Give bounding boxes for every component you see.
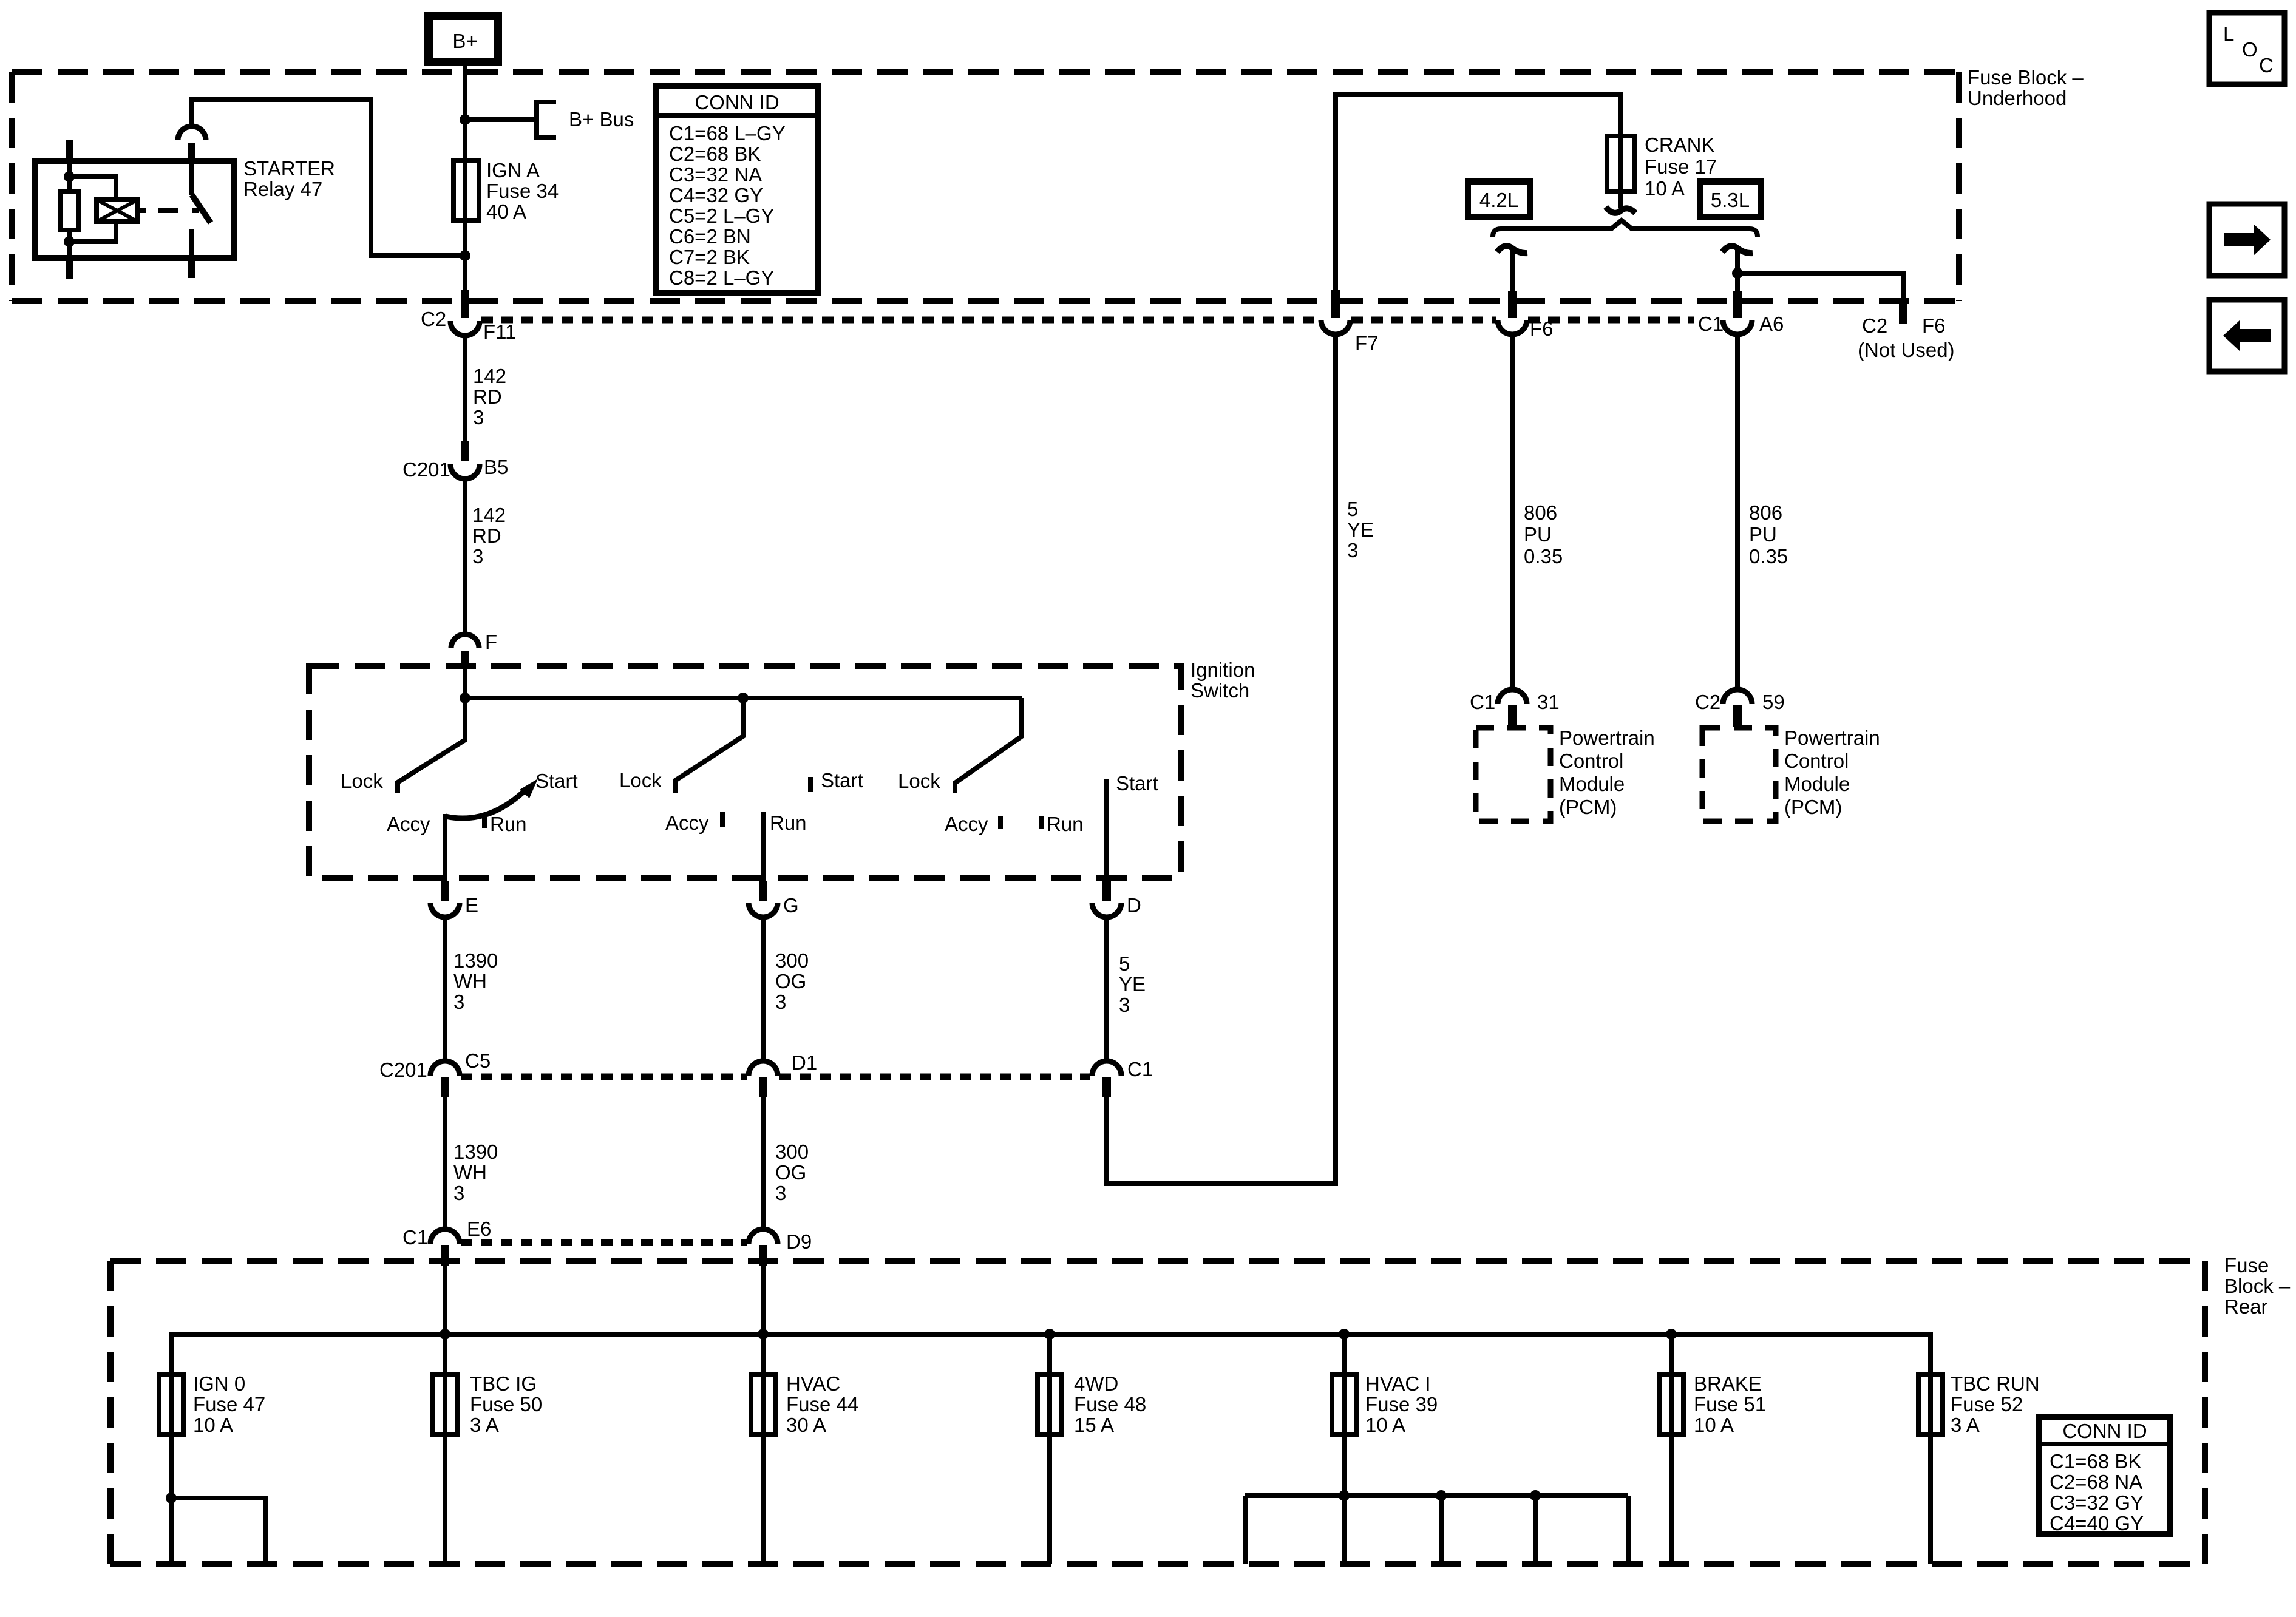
svg-text:Module: Module: [1559, 773, 1625, 795]
connector D1: pin: [759, 1077, 767, 1097]
node bus TBC IG: [440, 1329, 450, 1340]
wire C1 down and over to F7 riser: [1107, 336, 1336, 1184]
svg-text:806: 806: [1524, 501, 1557, 524]
wire IGN 0 output: [169, 1375, 174, 1564]
wire resistor bottom: [67, 230, 72, 258]
svg-text:Relay 47: Relay 47: [243, 178, 322, 200]
svg-text:B+ Bus: B+ Bus: [569, 108, 634, 131]
svg-text:C5: C5: [465, 1049, 491, 1072]
svg-text:Start: Start: [1116, 772, 1158, 795]
label 142 RD 3: [473, 365, 506, 429]
svg-text:C2: C2: [421, 308, 446, 330]
svg-text:Fuse 51: Fuse 51: [1694, 1393, 1766, 1415]
svg-text:TBC IG: TBC IG: [470, 1372, 537, 1395]
label 300 OG 3 lower: [775, 1141, 809, 1204]
svg-text:Accy: Accy: [945, 813, 988, 835]
wire C5 to C1 E6: [443, 1097, 447, 1230]
starter relay box: [35, 161, 234, 258]
svg-text:3: 3: [775, 1182, 786, 1204]
contact tick Run 1: [482, 813, 487, 828]
contact tick Start 2: [808, 777, 813, 792]
svg-text:Rear: Rear: [2224, 1295, 2268, 1318]
svg-text:OG: OG: [775, 1161, 806, 1184]
label Fuse Block Underhood: [1968, 66, 2084, 109]
connector F6: arc: [1498, 320, 1527, 334]
connector C2 F11: arc: [450, 321, 480, 336]
svg-text:L: L: [2223, 22, 2234, 45]
connector E: pin: [441, 881, 449, 901]
svg-text:C4=40 GY: C4=40 GY: [2050, 1512, 2144, 1534]
label Powertrain Control Module PCM left: [1559, 727, 1655, 818]
label 806 PU 0.35 right: [1749, 501, 1788, 568]
connector C201 C5: pin: [441, 1077, 449, 1097]
svg-text:3: 3: [1347, 539, 1358, 561]
svg-text:Fuse 52: Fuse 52: [1951, 1393, 2023, 1415]
contact tick Accy 2: [720, 812, 725, 827]
label 5 YE 3 riser: [1347, 498, 1374, 561]
svg-text:Start: Start: [535, 770, 578, 792]
relay switch pin bottom: [188, 258, 195, 278]
connector C2 59: arc: [1723, 690, 1752, 704]
connector arc at relay switch: [178, 126, 206, 140]
svg-text:Fuse 48: Fuse 48: [1074, 1393, 1146, 1415]
svg-text:Fuse 44: Fuse 44: [786, 1393, 858, 1415]
wire D to C1: [1104, 917, 1109, 1062]
CONN ID table rear: [2039, 1417, 2170, 1534]
wire to not used pin: [1737, 273, 1903, 301]
svg-text:10 A: 10 A: [1694, 1414, 1734, 1436]
svg-text:HVAC: HVAC: [786, 1372, 840, 1395]
arrow box right: [2209, 204, 2284, 276]
svg-text:3: 3: [473, 406, 484, 429]
coil actuator stub: [138, 208, 146, 213]
connector D1: arc: [749, 1061, 778, 1076]
svg-text:Fuse 50: Fuse 50: [470, 1393, 542, 1415]
fuse BRAKE Fuse 51: [1659, 1375, 1683, 1434]
relay switch contact: [189, 229, 194, 258]
svg-text:C2=68 NA: C2=68 NA: [2050, 1471, 2142, 1493]
svg-text:Ignition: Ignition: [1190, 659, 1255, 681]
svg-text:IGN A: IGN A: [486, 159, 540, 181]
connector G: arc: [749, 903, 778, 917]
fuse block rear dashed border: [110, 1261, 2205, 1564]
svg-text:F6: F6: [1922, 314, 1946, 337]
connector D: pin: [1102, 881, 1111, 901]
svg-text:(Not Used): (Not Used): [1858, 339, 1955, 361]
connector F: arc: [451, 634, 479, 648]
svg-text:YE: YE: [1119, 973, 1146, 995]
svg-text:1390: 1390: [453, 949, 498, 972]
svg-text:CONN ID: CONN ID: [695, 91, 779, 114]
wire G to D1: [761, 917, 766, 1062]
svg-text:1390: 1390: [453, 1141, 498, 1163]
connector E: arc: [430, 903, 460, 917]
wire A6 to PCM: [1735, 334, 1740, 690]
node coil bottom: [64, 236, 75, 247]
svg-text:Underhood: Underhood: [1968, 87, 2067, 109]
connector C1 E6: pin: [441, 1245, 449, 1266]
svg-text:B+: B+: [452, 30, 477, 52]
svg-text:C3=32 NA: C3=32 NA: [669, 163, 762, 186]
svg-text:Lock: Lock: [341, 770, 383, 792]
fuse 4WD Fuse 48: [1038, 1375, 1062, 1434]
svg-text:Accy: Accy: [387, 813, 430, 835]
connector C201 B5: pin: [461, 441, 469, 461]
svg-text:5: 5: [1119, 952, 1130, 975]
connector F: pin: [461, 651, 469, 669]
fuse HVAC I Fuse 39: [1332, 1375, 1356, 1434]
node A6 split: [1732, 268, 1743, 279]
svg-text:Lock: Lock: [619, 769, 662, 792]
svg-text:Switch: Switch: [1190, 679, 1249, 702]
svg-text:Run: Run: [490, 813, 527, 835]
pin C2 F6 not used: [1899, 300, 1907, 324]
svg-text:C6=2 BN: C6=2 BN: [669, 225, 751, 248]
svg-text:Powertrain: Powertrain: [1784, 727, 1880, 749]
svg-text:0.35: 0.35: [1749, 545, 1788, 568]
ladder stub 1: [1243, 1496, 1248, 1564]
label STARTER Relay 47: [243, 157, 335, 200]
svg-text:4.2L: 4.2L: [1479, 189, 1518, 211]
wafer 1 movable contact: [398, 698, 465, 793]
connector C1 A6: arc: [1723, 320, 1752, 334]
wire break 4.2L branch: [1497, 246, 1527, 253]
svg-text:300: 300: [775, 1141, 809, 1163]
fuse TBC IG Fuse 50: [433, 1375, 457, 1434]
node ladder 3: [1530, 1490, 1541, 1501]
svg-text:WH: WH: [453, 970, 487, 992]
label Ignition Switch: [1190, 659, 1255, 702]
node B+ bus junction: [460, 114, 470, 125]
svg-text:C1: C1: [1127, 1058, 1153, 1080]
svg-text:D: D: [1127, 894, 1141, 917]
svg-text:3: 3: [775, 991, 786, 1013]
label Fuse Block Rear: [2224, 1254, 2291, 1318]
relay coil feed wire: [67, 161, 72, 191]
wire 4WD output: [1047, 1334, 1052, 1564]
connector D: arc: [1092, 903, 1121, 917]
svg-text:IGN 0: IGN 0: [193, 1372, 245, 1395]
connector dashed row C2/F11 to A6: [481, 317, 1694, 324]
ignition switch dashed box: [309, 666, 1181, 878]
svg-text:WH: WH: [453, 1161, 487, 1184]
svg-text:Start: Start: [821, 769, 863, 792]
svg-text:3 A: 3 A: [470, 1414, 499, 1436]
svg-text:C1: C1: [1470, 691, 1495, 713]
wire relay switch to junction: [192, 100, 465, 256]
relay left pin bottom: [66, 258, 73, 279]
svg-text:Run: Run: [1047, 813, 1084, 835]
svg-text:0.35: 0.35: [1524, 545, 1563, 568]
svg-text:15 A: 15 A: [1074, 1414, 1114, 1436]
connector C2 59: pin: [1733, 705, 1742, 727]
connector D9: arc: [749, 1229, 778, 1244]
label 1390 WH 3 lower: [453, 1141, 498, 1204]
resistor in relay: [60, 191, 78, 230]
wire switch feed bus: [465, 696, 1022, 700]
svg-text:3: 3: [1119, 994, 1130, 1016]
node bus HVAC I: [1339, 1329, 1350, 1340]
wire BRAKE output: [1669, 1334, 1674, 1564]
rear fuse bus: [171, 1334, 1931, 1375]
svg-text:Block –: Block –: [2224, 1275, 2291, 1297]
engine split brace: [1493, 220, 1758, 237]
wire break below CRANK fuse: [1606, 207, 1635, 213]
svg-text:D9: D9: [786, 1230, 812, 1253]
svg-text:Fuse Block –: Fuse Block –: [1968, 66, 2084, 89]
wire break 5.3L branch: [1722, 246, 1753, 253]
wire 142 RD down to C201: [463, 336, 467, 441]
connector F7: arc: [1321, 320, 1350, 334]
svg-text:C1: C1: [1698, 313, 1724, 335]
wire G output from Run contact: [761, 812, 766, 887]
wire 142 RD to ignition switch: [463, 479, 467, 635]
CONN ID table underhood: [656, 86, 818, 293]
pin into relay: [188, 143, 195, 161]
wire to B+ Bus: [465, 117, 537, 122]
svg-text:5.3L: 5.3L: [1711, 189, 1750, 211]
label box 4.2L: [1468, 181, 1530, 217]
connector C1 31: pin: [1508, 705, 1517, 727]
svg-text:Control: Control: [1559, 750, 1623, 772]
wire D9 to rear bus: [761, 1266, 766, 1334]
fuse HVAC Fuse 44: [751, 1375, 775, 1434]
svg-text:PU: PU: [1524, 523, 1552, 546]
relay coil box: [97, 200, 138, 222]
svg-text:Run: Run: [770, 812, 807, 834]
svg-text:4WD: 4WD: [1074, 1372, 1118, 1395]
wafer 3 movable contact: [955, 698, 1022, 793]
actuator dashed linkage: [158, 208, 178, 213]
wire 5.3L branch down: [1735, 248, 1740, 293]
svg-text:B5: B5: [484, 456, 508, 478]
label 300 OG 3: [775, 949, 809, 1013]
connector C1 E6: arc: [430, 1229, 460, 1244]
fuse IGN A Fuse 34: [453, 161, 479, 220]
connector G: pin: [759, 881, 767, 901]
svg-text:Fuse 17: Fuse 17: [1645, 155, 1717, 178]
fuse TBC RUN Fuse 52: [1918, 1375, 1943, 1434]
svg-text:C1=68 L–GY: C1=68 L–GY: [669, 122, 786, 144]
connector row dashed C5 to C1: [461, 1074, 1090, 1080]
PCM box left: [1476, 728, 1550, 821]
fuse IGN 0 Fuse 47: [159, 1375, 183, 1434]
svg-text:10 A: 10 A: [193, 1414, 233, 1436]
label 1390 WH 3: [453, 949, 498, 1013]
node bus HVAC: [758, 1329, 769, 1340]
wire E to C201 C5: [443, 917, 447, 1062]
wire D output from Start contact: [1104, 779, 1109, 887]
svg-text:3: 3: [453, 991, 464, 1013]
arrow box left: [2209, 300, 2284, 371]
label box 5.3L: [1700, 181, 1761, 217]
svg-text:40 A: 40 A: [486, 200, 526, 223]
svg-text:Powertrain: Powertrain: [1559, 727, 1655, 749]
fuse CRANK Fuse 17: [1607, 136, 1634, 192]
svg-text:BRAKE: BRAKE: [1694, 1372, 1762, 1395]
wire top feed to CRANK fuse: [1336, 95, 1620, 290]
svg-text:Control: Control: [1784, 750, 1849, 772]
wire D1 to D9: [761, 1097, 766, 1230]
svg-text:3: 3: [453, 1182, 464, 1204]
svg-text:RD: RD: [472, 524, 501, 547]
svg-text:Accy: Accy: [665, 812, 709, 834]
relay left pin top: [66, 140, 73, 161]
svg-text:C3=32 GY: C3=32 GY: [2050, 1491, 2144, 1514]
svg-text:30 A: 30 A: [786, 1414, 826, 1436]
svg-text:59: 59: [1762, 691, 1785, 713]
svg-text:5: 5: [1347, 498, 1358, 520]
svg-text:Fuse 39: Fuse 39: [1365, 1393, 1438, 1415]
label 5 YE 3: [1119, 952, 1146, 1016]
svg-text:A6: A6: [1759, 313, 1784, 335]
label 142 RD 3 second: [472, 504, 506, 568]
node ladder 2: [1436, 1490, 1447, 1501]
connector C1 A6: pin: [1733, 291, 1742, 318]
ladder stub 3: [1533, 1496, 1538, 1564]
B+ power terminal: [429, 16, 498, 62]
node bus at wafer 2: [738, 693, 749, 703]
svg-text:C1=68 BK: C1=68 BK: [2050, 1450, 2141, 1473]
svg-text:G: G: [783, 894, 799, 917]
svg-text:(PCM): (PCM): [1784, 796, 1842, 818]
relay switch lever: [192, 195, 211, 223]
svg-text:D1: D1: [792, 1051, 817, 1074]
svg-text:Fuse: Fuse: [2224, 1254, 2269, 1276]
PCM box right: [1702, 728, 1776, 821]
connector D9: pin: [759, 1245, 767, 1266]
connector F6: pin: [1508, 291, 1517, 318]
ladder stub 2: [1439, 1496, 1444, 1564]
svg-text:PU: PU: [1749, 523, 1777, 546]
connector C1 31: arc: [1498, 690, 1527, 704]
wire HVAC output: [761, 1334, 766, 1564]
connector C1 on D wire: pin: [1102, 1077, 1111, 1097]
node IGN 0 split: [166, 1493, 177, 1503]
contact tick Accy 3: [998, 816, 1003, 829]
svg-text:Fuse 47: Fuse 47: [193, 1393, 265, 1415]
svg-text:YE: YE: [1347, 518, 1374, 541]
label Powertrain Control Module PCM right: [1784, 727, 1880, 818]
svg-text:142: 142: [472, 504, 506, 526]
svg-text:OG: OG: [775, 970, 806, 992]
wire F into switch: [463, 668, 467, 700]
svg-text:STARTER: STARTER: [243, 157, 335, 180]
connector C201 B5: arc: [450, 464, 480, 479]
svg-text:3: 3: [472, 545, 483, 568]
fuse block underhood dashed border: [12, 72, 1959, 301]
svg-text:C201: C201: [379, 1059, 427, 1081]
label 806 PU 0.35 left: [1524, 501, 1563, 568]
svg-text:10 A: 10 A: [1365, 1414, 1405, 1436]
svg-text:CRANK: CRANK: [1645, 134, 1715, 156]
wire HVAC I output: [1342, 1334, 1347, 1564]
connector C2 F11: pin: [461, 290, 469, 318]
connector C1 on D wire: arc: [1092, 1061, 1121, 1076]
svg-text:CONN ID: CONN ID: [2062, 1420, 2147, 1442]
wire IGN 0 branch right: [171, 1498, 265, 1564]
svg-text:C7=2 BK: C7=2 BK: [669, 246, 750, 268]
svg-text:C2=68 BK: C2=68 BK: [669, 143, 761, 165]
svg-text:C201: C201: [402, 458, 450, 481]
svg-text:300: 300: [775, 949, 809, 972]
svg-text:F: F: [485, 631, 497, 653]
connector C201 C5: arc: [430, 1061, 460, 1076]
wire 4.2L branch to F6: [1510, 248, 1515, 293]
node bus at wafer 1: [460, 693, 470, 703]
relay switch common wire: [189, 161, 194, 195]
svg-text:C8=2 L–GY: C8=2 L–GY: [669, 266, 774, 289]
svg-text:Module: Module: [1784, 773, 1850, 795]
wire TBC RUN output: [1928, 1375, 1933, 1564]
LOC legend box: [2209, 13, 2284, 84]
node junction with relay feed: [460, 250, 470, 261]
wire E output: [443, 814, 447, 887]
svg-text:C: C: [2259, 54, 2274, 76]
connector row dashed E6 to D9: [461, 1239, 747, 1246]
svg-text:F7: F7: [1355, 332, 1379, 354]
svg-text:HVAC I: HVAC I: [1365, 1372, 1431, 1395]
svg-text:(PCM): (PCM): [1559, 796, 1617, 818]
svg-text:Fuse 34: Fuse 34: [486, 180, 559, 202]
svg-text:C4=32 GY: C4=32 GY: [669, 184, 763, 206]
wire F6 to PCM: [1510, 334, 1515, 690]
svg-text:31: 31: [1537, 691, 1560, 713]
node bus 4WD: [1044, 1329, 1055, 1340]
svg-text:C2: C2: [1695, 691, 1720, 713]
ladder bus under HVAC I: [1245, 1493, 1628, 1498]
svg-text:806: 806: [1749, 501, 1782, 524]
svg-text:E: E: [465, 894, 478, 917]
contact tick Run 3: [1039, 816, 1044, 829]
node coil top: [64, 171, 75, 182]
label IGN A Fuse 34 40 A: [486, 159, 559, 223]
svg-text:F11: F11: [483, 320, 516, 343]
node bus BRAKE: [1666, 1329, 1677, 1340]
B+ Bus terminal: [537, 100, 634, 140]
svg-text:O: O: [2242, 38, 2258, 61]
svg-text:10 A: 10 A: [1645, 177, 1685, 200]
svg-text:F6: F6: [1530, 317, 1554, 340]
rotation arrow wafer 1: [446, 779, 538, 818]
svg-text:Lock: Lock: [898, 770, 940, 792]
node HVAC I ladder: [1339, 1490, 1350, 1501]
svg-text:E6: E6: [467, 1218, 491, 1240]
connector F7: pin: [1331, 290, 1340, 318]
wire TBC IG output: [443, 1334, 447, 1564]
svg-text:142: 142: [473, 365, 506, 387]
wire E6 to rear bus: [443, 1266, 447, 1334]
svg-text:C2: C2: [1862, 314, 1887, 337]
wire B+ down to fuse: [463, 62, 467, 293]
svg-text:3 A: 3 A: [1951, 1414, 1980, 1436]
svg-text:TBC RUN: TBC RUN: [1951, 1372, 2040, 1395]
svg-text:RD: RD: [473, 385, 502, 408]
ladder stub 4: [1626, 1496, 1631, 1564]
wafer 2 movable contact: [675, 698, 743, 793]
svg-text:C5=2 L–GY: C5=2 L–GY: [669, 205, 774, 227]
svg-text:C1: C1: [402, 1226, 428, 1249]
wire coil parallel branch: [69, 177, 116, 200]
